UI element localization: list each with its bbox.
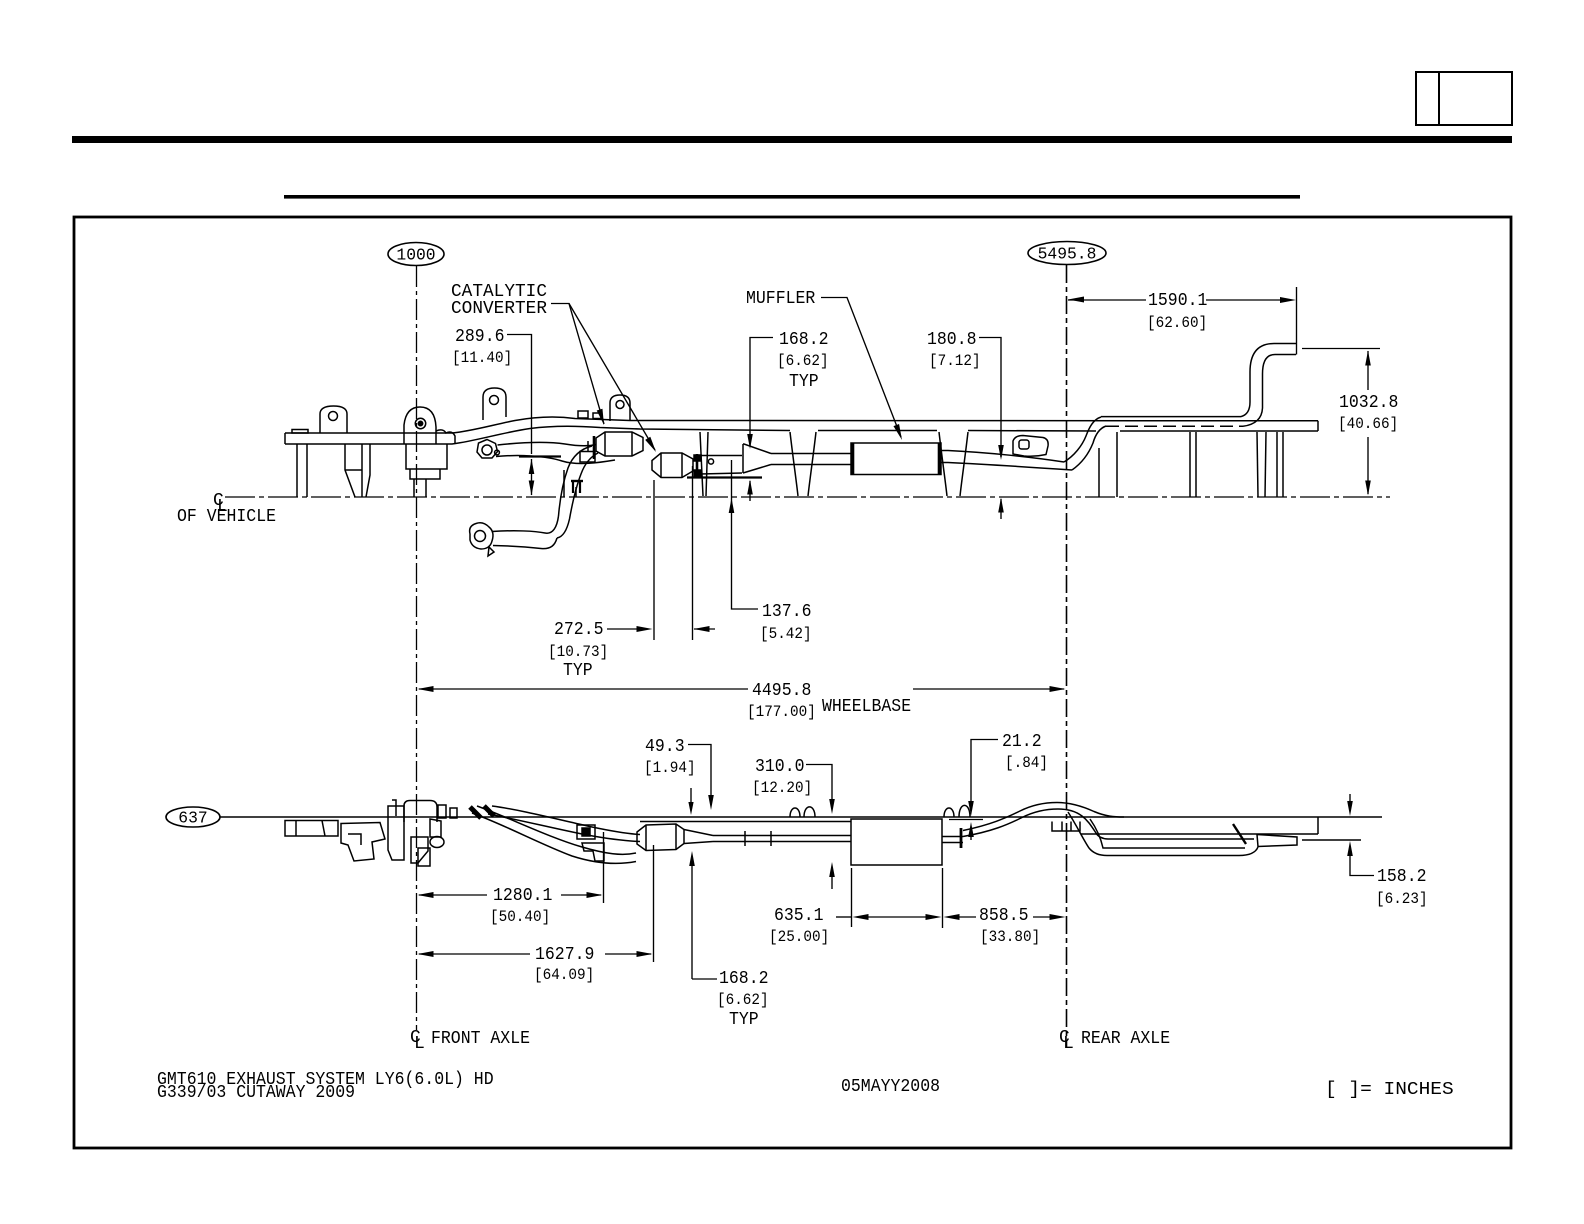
engine cluster plan [392,800,396,816]
dim 289.6 leader [507,335,532,455]
front suspension blob [341,823,385,862]
front pipe upper branch [498,442,597,445]
dim 310.0 leader [806,765,832,806]
muffler (side view) [851,443,941,475]
pipe to muffler [771,453,851,455]
pipe to muffler plan [713,835,851,837]
cat outlet cone plan [684,830,713,836]
block below mount [406,444,447,469]
tailpipe after muffler [941,451,1064,463]
svg-text:TYP: TYP [789,372,819,392]
svg-text:REAR AXLE: REAR AXLE [1081,1029,1170,1049]
manifold clamps plan [470,807,481,818]
crossmember legs rear3 [1257,432,1258,497]
front axle centerline [416,266,418,1030]
svg-text:MUFFLER: MUFFLER [746,289,815,309]
ref line right of tip [1302,839,1361,841]
svg-text:1032.8: 1032.8 [1339,393,1398,413]
downpipe flange lower [470,523,493,549]
hidden pipe dashed line [1106,425,1243,427]
svg-text:[11.40]: [11.40] [452,349,512,367]
catalytic converter 1 (upper) [596,432,643,456]
plan view texts [157,732,1454,1103]
svg-text:[7.12]: [7.12] [929,352,981,370]
dim 272.5 lines [653,480,655,640]
thick top rule [72,136,1512,143]
exhaust tip plan [1257,835,1297,847]
hanger bracket plan [577,825,595,839]
muffler outlet plan [942,836,963,838]
rear axle centerline [1066,265,1068,1047]
svg-text:TYP: TYP [729,1010,759,1030]
body mount tab left [320,406,347,433]
plan view datum line [220,816,1382,818]
plan view arrowheads [418,795,1353,957]
crossmember trapezoid 1 [790,432,798,496]
cab mount dome [404,407,436,444]
body mount tab 2 [483,388,506,420]
dim 137.6 leader [732,460,759,609]
tailpipe S-bend up over rail [1064,417,1101,462]
tailpipe top elbow and tip [1250,344,1296,373]
vehicle centerline (side view) [225,496,1390,498]
svg-text:[40.66]: [40.66] [1338,415,1398,433]
tick under pipe [687,476,762,478]
pipe cat2 to resonator cone [700,455,742,457]
pipe over rail top line [1101,416,1241,418]
body mount tab 3 [610,395,630,421]
side view texts [177,282,1398,721]
svg-text:858.5: 858.5 [979,906,1029,926]
svg-text:180.8: 180.8 [927,330,977,350]
svg-text:FRONT AXLE: FRONT AXLE [431,1029,530,1049]
svg-text:310.0: 310.0 [755,757,805,777]
svg-text:272.5: 272.5 [554,620,604,640]
svg-text:158.2: 158.2 [1377,867,1427,887]
dim 168.2 lower leader [691,858,693,979]
svg-text:168.2: 168.2 [779,330,829,350]
crossmember legs mid [700,432,703,496]
rail second line plan [640,821,851,823]
svg-text:[.84]: [.84] [1005,754,1048,772]
svg-text:L: L [1063,1034,1074,1054]
rear rail plan [1081,833,1318,835]
Y pipe branch B [492,806,640,835]
balloon 1000 [388,243,444,266]
label MUFFLER leader [821,298,901,438]
exhaust manifold flange upper [477,440,498,459]
svg-text:4495.8: 4495.8 [752,681,811,701]
clamp at cat2 outlet [696,454,699,478]
frame rail side view [285,417,1318,433]
tail sweep over axle plan [963,803,1124,831]
svg-text:TYP: TYP [563,661,593,681]
dim 168.2 typ leader [750,338,773,447]
downpipe lower branch [492,516,559,533]
svg-text:[12.20]: [12.20] [752,779,812,797]
dim 49.3 leader [688,745,711,802]
svg-text:49.3: 49.3 [645,737,685,757]
wheelbase dim line [419,688,748,690]
svg-text:21.2: 21.2 [1002,732,1042,752]
tailpipe rise at rear [1241,372,1250,417]
catalytic converter 2 (lower) [652,453,693,478]
resonator outlet cone [742,444,744,473]
svg-text:635.1: 635.1 [774,906,824,926]
crossmember legs rear1 [1098,448,1100,497]
svg-text:[25.00]: [25.00] [769,928,829,946]
svg-text:[177.00]: [177.00] [747,703,816,721]
svg-text:168.2: 168.2 [719,969,769,989]
muffler plan [851,819,942,865]
svg-text:1000: 1000 [396,247,435,266]
svg-text:1280.1: 1280.1 [493,886,552,906]
hanger rod plan [1233,824,1246,844]
svg-text:1590.1: 1590.1 [1148,291,1207,311]
svg-text:5495.8: 5495.8 [1038,246,1097,265]
dim 158.2 leader [1349,794,1351,808]
front bumper bar plan [285,821,338,837]
dim 1032.8 [1302,348,1380,350]
tail under rail plan [1090,819,1245,848]
svg-text:[10.73]: [10.73] [548,643,608,661]
svg-text:289.6: 289.6 [455,327,505,347]
svg-text:[6.62]: [6.62] [717,991,769,1009]
front bracket below rail [345,444,355,497]
balloon 5495.8 [1028,242,1106,265]
tail hanger bracket [1013,436,1048,457]
svg-text:[62.60]: [62.60] [1147,314,1207,332]
dim 180.8 leader [979,338,1001,458]
hangers small bits near cat [580,452,595,463]
svg-text:05MAYY2008: 05MAYY2008 [841,1077,940,1097]
dim 21.2 leader [971,740,998,809]
svg-text:L: L [217,497,228,517]
dim 1590.1 [1068,299,1146,301]
svg-text:1627.9: 1627.9 [535,945,594,965]
balloon 637 [166,807,220,827]
svg-text:L: L [414,1034,425,1054]
svg-text:[6.62]: [6.62] [777,352,829,370]
svg-text:137.6: 137.6 [762,602,812,622]
catalytic converter plan [637,824,684,851]
spring seat at rear axle plan [1052,822,1080,832]
svg-text:[6.23]: [6.23] [1376,890,1428,908]
label CATALYTIC CONVERTER leader [551,304,604,425]
dim 1627.9 [419,953,530,955]
arrowheads side view [418,297,1371,693]
crossmember trapezoid 2 [939,432,947,496]
Y pipe branch A [477,806,636,854]
title underline [284,195,1300,199]
svg-text:[33.80]: [33.80] [980,928,1040,946]
top-right revision box [1416,72,1512,125]
crossmember loops plan 2 [944,808,954,817]
clips on rail top [578,411,588,418]
dim 1280.1 [419,894,487,896]
svg-text:WHEELBASE: WHEELBASE [822,697,911,717]
svg-text:CONVERTER: CONVERTER [451,299,547,319]
svg-text:[5.42]: [5.42] [760,625,812,643]
svg-text:[1.94]: [1.94] [644,759,696,777]
front legs below rail [296,444,298,497]
svg-text:[64.09]: [64.09] [534,966,594,984]
crossmember legs rear2 [1189,432,1191,497]
crossmember loops plan 1 [790,808,800,817]
svg-text:G339/03 CUTAWAY 2009: G339/03 CUTAWAY 2009 [157,1083,355,1103]
svg-text:637: 637 [178,810,207,829]
main drawing border [74,217,1511,1148]
dim 635.1 / 858.5 [836,916,852,918]
svg-text:[ ]= INCHES: [ ]= INCHES [1325,1080,1454,1100]
svg-text:[50.40]: [50.40] [490,908,550,926]
